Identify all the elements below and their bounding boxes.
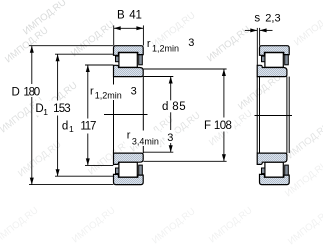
arrow B right — [136, 26, 143, 30]
dim D line — [31, 46, 33, 185]
roller bottom section — [119, 162, 137, 177]
cage bar top-right — [139, 55, 143, 65]
svg-text:117: 117 — [80, 120, 96, 132]
svg-text:D: D — [12, 87, 20, 99]
arrow B left — [114, 26, 121, 30]
svg-text:1: 1 — [43, 107, 48, 117]
dim d1 line — [87, 65, 89, 165]
svg-text:153: 153 — [53, 103, 71, 115]
arrow d top — [169, 77, 173, 84]
cage bar bottom-right — [139, 165, 143, 175]
inner ring bottom section — [114, 153, 144, 164]
svg-text:180: 180 — [23, 87, 40, 99]
arrow F top — [222, 69, 226, 76]
svg-text:85: 85 — [172, 101, 185, 113]
arrow D1 top — [56, 54, 60, 61]
arrow d1 bottom — [86, 158, 90, 165]
cage bar bottom-right (right view) — [285, 165, 289, 175]
RIGHT VIEW: section with displaced inner ring — [257, 46, 289, 185]
inner ring bottom section (right view) — [257, 153, 287, 164]
outer ring bottom section (right view) — [260, 174, 290, 184]
dim D extension lines — [29, 45, 113, 47]
roller bottom section (right view) — [265, 162, 283, 177]
white label backgrounds — [10, 84, 235, 146]
arrow F bottom — [222, 154, 226, 161]
svg-text:1,2min: 1,2min — [152, 43, 179, 53]
svg-text:3,4min: 3,4min — [132, 136, 159, 146]
dim D1 line — [57, 54, 59, 176]
right view centerline — [255, 115, 293, 117]
arrow s left — [250, 28, 257, 32]
svg-text:3: 3 — [131, 85, 137, 97]
svg-text:3: 3 — [167, 132, 173, 144]
inner ring top section — [114, 65, 144, 76]
cage bar bottom-left — [116, 168, 119, 174]
svg-text:d: d — [162, 101, 168, 113]
outer ring top section (right view) — [260, 46, 290, 56]
left view centerline — [104, 114, 148, 116]
arrow s right — [260, 28, 267, 32]
dim s extension lines — [256, 28, 258, 65]
svg-text:108: 108 — [214, 120, 232, 132]
arrow d1 top — [86, 65, 90, 72]
dim B extension lines — [113, 25, 115, 45]
svg-text:2,3: 2,3 — [265, 13, 280, 25]
cage bar top-right (right view) — [285, 55, 289, 65]
svg-text:3: 3 — [188, 37, 194, 49]
dim s arrow tails — [245, 29, 257, 31]
svg-text:41: 41 — [129, 10, 142, 22]
dim F extension lines — [144, 68, 227, 70]
arrow D1 bottom — [56, 169, 60, 176]
dim d line — [170, 77, 172, 153]
svg-text:F: F — [204, 120, 211, 132]
roller top section (right view) — [265, 53, 283, 68]
svg-text:d: d — [62, 120, 68, 132]
LEFT VIEW: main cross-section — [114, 46, 144, 185]
dimension and extension lines — [29, 25, 273, 184]
svg-text:r: r — [127, 130, 131, 142]
right view side face lines between sections — [255, 77, 293, 154]
arrow d bottom — [169, 145, 173, 152]
dim D1 extension lines — [55, 53, 113, 55]
dim d1 extension lines — [85, 64, 113, 66]
dim d extension lines — [144, 76, 174, 78]
inner ring top section (right view, shifted left) — [257, 65, 287, 76]
dim F line — [223, 69, 225, 161]
outer ring bottom section — [114, 174, 144, 184]
arrow D top — [30, 46, 34, 53]
svg-text:r: r — [147, 38, 151, 50]
left view side face lines between sections — [104, 77, 148, 154]
cage bar top-left — [116, 56, 119, 62]
svg-text:r: r — [90, 85, 94, 97]
svg-text:B: B — [117, 10, 125, 22]
svg-text:s: s — [254, 13, 260, 25]
svg-text:1: 1 — [69, 124, 74, 134]
dim B line — [114, 27, 144, 29]
roller top section — [119, 53, 137, 68]
svg-text:1,2min: 1,2min — [95, 90, 122, 100]
arrowheads — [30, 26, 267, 184]
cage bar top-left (right view) — [262, 56, 265, 62]
outer ring top section — [114, 46, 144, 56]
cage bar bottom-left (right view) — [262, 168, 265, 174]
arrow D bottom — [30, 178, 34, 185]
